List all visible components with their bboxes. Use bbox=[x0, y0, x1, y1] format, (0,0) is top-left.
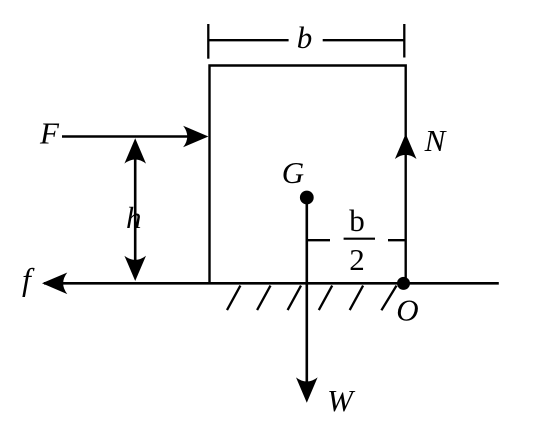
dashed b/2 leader: right dash bbox=[388, 239, 405, 241]
svg-text:N: N bbox=[424, 123, 448, 158]
normal force N arrowhead (on right edge) bbox=[395, 134, 417, 159]
dimension b: right segment bbox=[323, 39, 405, 41]
dashed b/2 leader: left dash bbox=[308, 239, 330, 241]
svg-text:O: O bbox=[396, 293, 418, 328]
block (square body) bbox=[210, 66, 406, 284]
dimension b: left tick bbox=[207, 24, 209, 59]
ground line bbox=[44, 282, 499, 285]
svg-text:G: G bbox=[282, 155, 304, 190]
ground hatch marks bbox=[227, 286, 397, 311]
pivot point O dot bbox=[397, 277, 410, 290]
svg-text:b: b bbox=[297, 20, 313, 55]
svg-text:2: 2 bbox=[349, 242, 365, 277]
fraction b/2: bar bbox=[344, 238, 375, 240]
weight W arrow bbox=[296, 198, 318, 403]
dimension h double arrow bbox=[124, 138, 146, 281]
svg-text:W: W bbox=[327, 383, 356, 418]
friction f arrowhead bbox=[42, 273, 67, 295]
dimension b: right tick bbox=[403, 24, 405, 58]
force F arrow bbox=[62, 126, 208, 148]
dimension b: left segment bbox=[208, 39, 288, 41]
svg-text:f: f bbox=[22, 261, 35, 297]
center of gravity G dot bbox=[300, 191, 314, 205]
svg-text:b: b bbox=[349, 203, 365, 238]
svg-text:h: h bbox=[126, 200, 142, 235]
svg-text:F: F bbox=[39, 116, 60, 151]
